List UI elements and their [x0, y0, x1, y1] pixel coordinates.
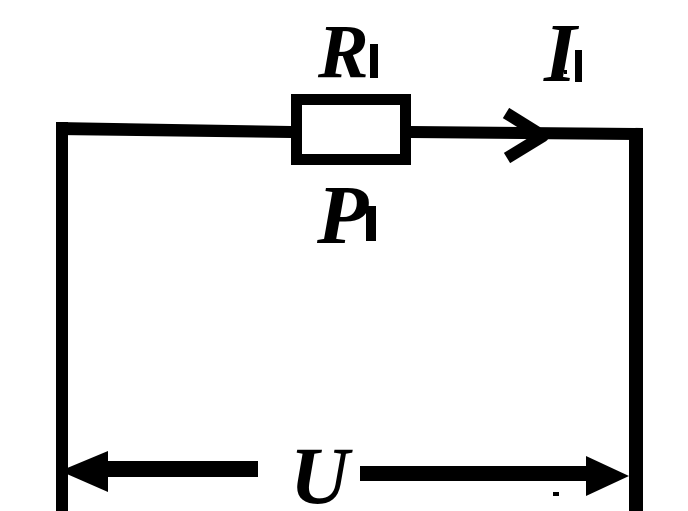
wire top left segment	[56, 122, 291, 138]
speck near I1	[564, 70, 567, 74]
voltage arrow left (U measurement)	[60, 451, 108, 492]
wire right vertical	[629, 128, 643, 511]
svg-text:R: R	[317, 10, 369, 94]
svg-text:P: P	[316, 169, 369, 262]
wire left vertical	[56, 122, 68, 511]
resistor R1	[297, 100, 406, 160]
svg-text:I: I	[543, 7, 580, 100]
speck near bottom right	[553, 492, 559, 496]
wire top right segment	[411, 126, 643, 140]
svg-text:U: U	[290, 430, 353, 511]
voltage arrow right (U measurement)	[360, 466, 588, 481]
current direction arrow I1	[506, 113, 543, 158]
